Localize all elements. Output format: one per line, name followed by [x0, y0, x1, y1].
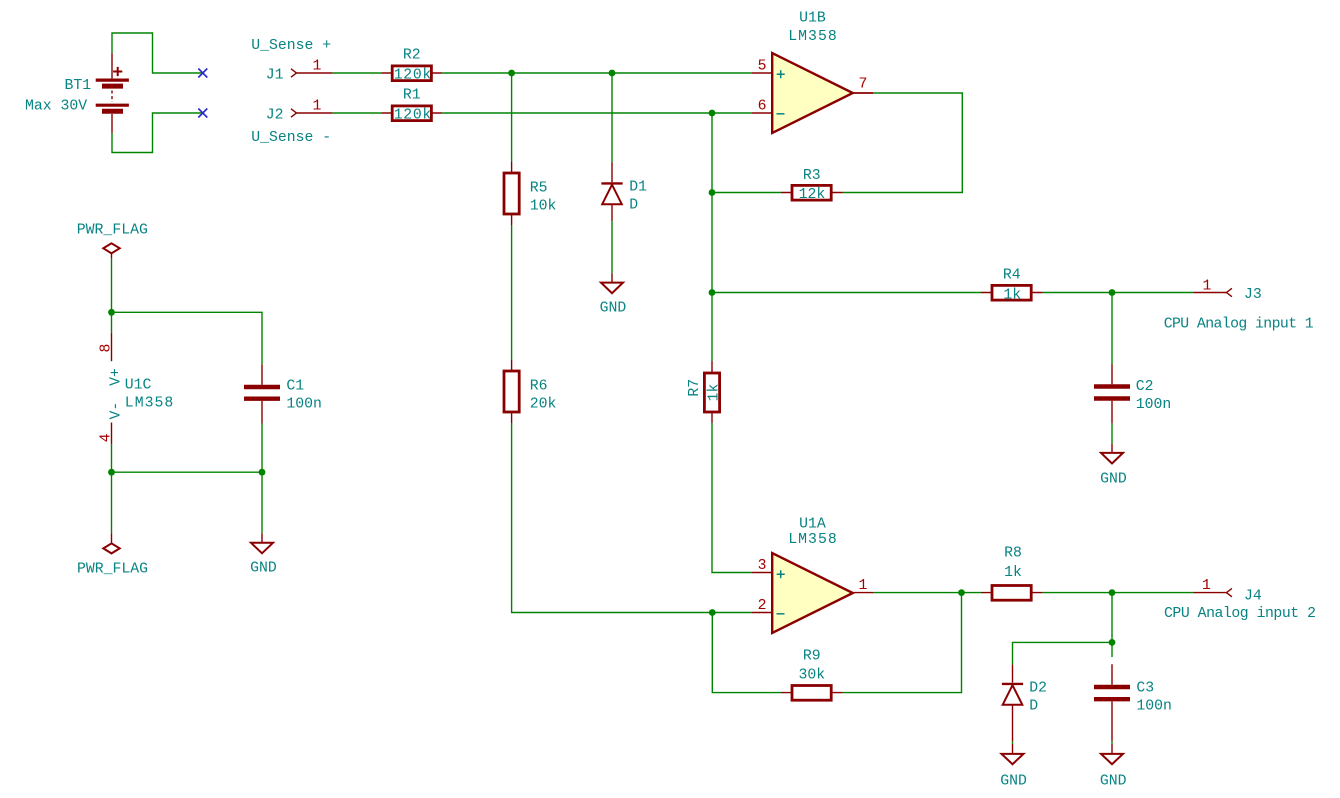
resistor R2: [381, 66, 442, 81]
wire pwr flag to U1C: [111, 258, 113, 312]
svg-text:1: 1: [313, 59, 322, 75]
node junction R4 row: [709, 289, 716, 296]
wire R6 bottom to U1A minus row: [512, 423, 713, 613]
wire U1A out to R8: [873, 592, 981, 594]
svg-text:R7: R7: [687, 379, 703, 397]
svg-text:R8: R8: [1004, 545, 1022, 561]
node junction bottom left: [108, 469, 115, 476]
wire output col down: [1111, 593, 1113, 643]
connector J3: [1193, 292, 1226, 294]
svg-text:1: 1: [313, 99, 322, 115]
wire R4 row: [712, 292, 981, 294]
svg-text:PWR_FLAG: PWR_FLAG: [77, 222, 148, 238]
node junction D2 row: [1109, 639, 1116, 646]
wire C3 to GND: [1111, 741, 1113, 744]
svg-text:1k: 1k: [1003, 287, 1021, 303]
svg-text:1k: 1k: [707, 384, 723, 402]
power flag top: [103, 243, 119, 258]
svg-text:GND: GND: [1100, 471, 1127, 487]
svg-text:100n: 100n: [1136, 698, 1172, 714]
power GND under C2: [1101, 444, 1123, 464]
svg-text:10k: 10k: [530, 198, 557, 214]
svg-text:1: 1: [1203, 279, 1212, 295]
capacitor C2: [1094, 364, 1130, 424]
svg-text:D: D: [1029, 698, 1038, 714]
wire D2 row: [1013, 642, 1113, 664]
power flag bottom: [103, 533, 119, 553]
node junction U1A out: [958, 589, 965, 596]
capacitor C3: [1094, 664, 1130, 741]
svg-text:U_Sense +: U_Sense +: [251, 38, 331, 54]
op-amp U1A: [752, 553, 873, 633]
node junction C3 top: [1109, 589, 1116, 596]
power GND under C1: [251, 533, 273, 553]
node junction C2: [1109, 289, 1116, 296]
resistor R4: [981, 285, 1043, 300]
wire U1C pin8 feed: [111, 312, 113, 333]
wire R9 right up to output: [843, 593, 962, 693]
wire J2 row left: [333, 112, 382, 114]
svg-text:GND: GND: [1100, 773, 1127, 789]
svg-text:U_Sense -: U_Sense -: [251, 130, 331, 146]
svg-text:LM358: LM358: [125, 396, 174, 412]
svg-text:1: 1: [1202, 578, 1211, 594]
wire J2 row right: [442, 112, 752, 114]
svg-text:R9: R9: [803, 648, 821, 664]
op-amp power U1C: [111, 333, 113, 444]
connector J4: [1193, 592, 1226, 594]
wire U1C pin4 down: [111, 444, 113, 472]
node junction J1-D1: [609, 70, 616, 77]
node junction J2-R7col: [709, 110, 716, 117]
svg-text:CPU Analog input 2: CPU Analog input 2: [1164, 606, 1316, 622]
svg-text:V-: V-: [108, 402, 124, 420]
wire C2 top: [1111, 293, 1113, 365]
svg-text:8: 8: [98, 344, 114, 353]
svg-text:C3: C3: [1136, 681, 1154, 697]
svg-text:D2: D2: [1029, 681, 1047, 697]
diode D2: [1002, 665, 1023, 742]
svg-text:LM358: LM358: [788, 29, 837, 45]
node junction pwr top: [108, 309, 115, 316]
svg-text:120k: 120k: [394, 67, 432, 83]
svg-text:U1C: U1C: [125, 378, 152, 394]
svg-text:3: 3: [758, 558, 767, 574]
svg-text:20k: 20k: [530, 396, 557, 412]
svg-text:U1A: U1A: [799, 517, 826, 533]
svg-text:J3: J3: [1244, 287, 1262, 303]
wire J1 row right: [442, 72, 752, 74]
wire C3 top: [1111, 642, 1113, 657]
svg-text:Max 30V: Max 30V: [25, 99, 87, 115]
svg-text:C1: C1: [286, 379, 304, 395]
svg-text:PWR_FLAG: PWR_FLAG: [77, 561, 148, 577]
resistor R6: [504, 360, 519, 423]
svg-text:CPU Analog input 1: CPU Analog input 1: [1164, 316, 1314, 332]
node junction bottom C1: [259, 469, 266, 476]
resistor R3: [781, 185, 843, 200]
svg-text:7: 7: [859, 76, 868, 92]
svg-text:J4: J4: [1244, 589, 1262, 605]
resistor R5: [504, 162, 519, 225]
wire top rail to C1: [112, 312, 263, 364]
svg-text:1k: 1k: [1004, 565, 1022, 581]
node junction R3 row: [709, 189, 716, 196]
svg-text:2: 2: [758, 598, 767, 614]
no-connect X top: [198, 69, 207, 78]
svg-text:GND: GND: [1000, 773, 1027, 789]
resistor R9: [781, 686, 843, 701]
svg-text:GND: GND: [250, 561, 277, 577]
svg-text:GND: GND: [600, 300, 627, 316]
wire R3 to node: [712, 192, 781, 194]
svg-text:R2: R2: [403, 47, 421, 63]
svg-text:R1: R1: [403, 87, 421, 103]
svg-text:R5: R5: [530, 181, 548, 197]
svg-text:5: 5: [758, 59, 767, 75]
wire R4 to J3: [1043, 292, 1194, 294]
svg-text:U1B: U1B: [799, 11, 826, 27]
svg-text:C2: C2: [1136, 379, 1154, 395]
svg-text:R4: R4: [1003, 267, 1021, 283]
wire battery top to NC: [112, 33, 203, 73]
svg-text:6: 6: [758, 99, 767, 115]
svg-text:D1: D1: [629, 180, 647, 196]
power GND under C3: [1101, 744, 1123, 764]
svg-text:4: 4: [98, 433, 114, 442]
wire D1 top: [611, 73, 613, 162]
resistor R8: [981, 586, 1043, 601]
wire to pwr flag bottom: [111, 472, 113, 533]
svg-text:J1: J1: [266, 68, 284, 84]
svg-text:LM358: LM358: [788, 532, 837, 548]
resistor R1: [381, 106, 442, 121]
no-connect X bottom: [198, 109, 207, 118]
capacitor C1: [244, 364, 280, 423]
svg-text:120k: 120k: [394, 107, 432, 123]
svg-text:30k: 30k: [798, 668, 825, 684]
node junction U1A minus: [709, 609, 716, 616]
wire R5 to R6: [511, 225, 513, 360]
svg-text:12k: 12k: [799, 187, 826, 203]
svg-text:R6: R6: [530, 379, 548, 395]
wire J1 row left: [333, 72, 382, 74]
resistor R7: [704, 361, 719, 423]
wire vertical J2 column: [711, 113, 713, 361]
wire U1B output loop: [853, 92, 873, 94]
svg-text:100n: 100n: [1136, 397, 1172, 413]
wire U1A minus stub feed: [712, 612, 752, 614]
diode D1: [601, 162, 622, 221]
power GND under D1: [601, 273, 623, 293]
svg-text:1: 1: [859, 578, 868, 594]
wire D1 to GND: [611, 221, 613, 273]
svg-text:D: D: [629, 198, 638, 214]
svg-text:V+: V+: [108, 368, 124, 386]
node junction J1-R5: [508, 70, 515, 77]
battery BT1: [96, 53, 129, 133]
wire R5 top: [511, 73, 513, 162]
wire bottom rail: [112, 471, 263, 473]
wire C1 col to GND: [261, 472, 263, 533]
svg-text:R3: R3: [803, 168, 821, 184]
wire R8 to J4: [1043, 592, 1194, 594]
op-amp U1B: [752, 53, 873, 133]
svg-text:BT1: BT1: [65, 78, 92, 94]
svg-text:100n: 100n: [286, 397, 322, 413]
wire C1 bottom: [261, 424, 263, 473]
power GND under D2: [1002, 744, 1024, 764]
wire C2 to GND: [1111, 424, 1113, 444]
wire R9 loop: [712, 613, 781, 693]
wire R7 bottom to U1A plus: [712, 423, 752, 573]
wire battery bottom to NC: [112, 113, 203, 153]
svg-text:J2: J2: [266, 108, 284, 124]
wire D2 to GND: [1012, 741, 1014, 744]
